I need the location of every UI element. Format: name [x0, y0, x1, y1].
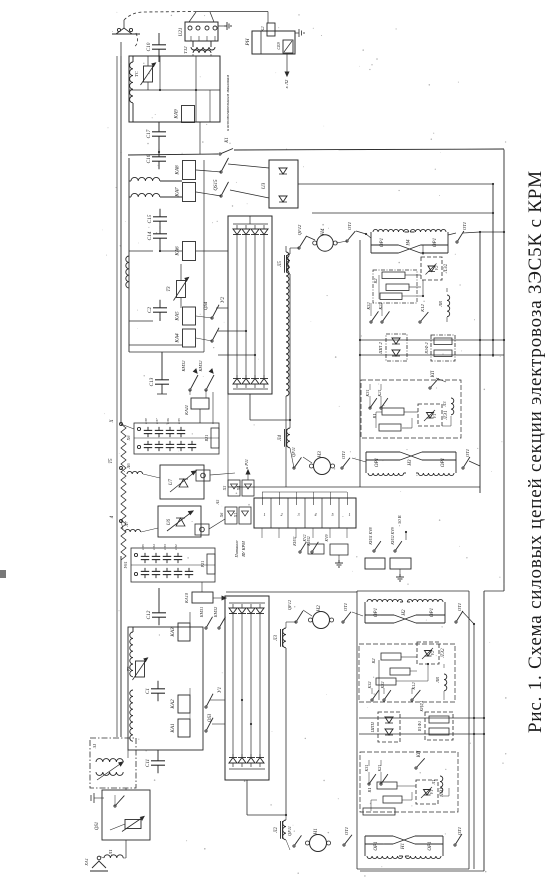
adjustable resistor T2: [136, 661, 145, 677]
svg-text:Н3: Н3: [408, 459, 413, 467]
resistor R21 vertical: [211, 428, 219, 448]
wire ShP row lower 2: [359, 733, 484, 735]
U2 output stub: [249, 394, 251, 420]
resistor R1b lower: [383, 796, 402, 803]
feeder line down to L2: [285, 648, 287, 815]
contact KM31: [189, 389, 191, 391]
svg-text:КН32 КV9: КН32 КV9: [391, 527, 395, 545]
svg-text:КА7: КА7: [175, 187, 181, 198]
resistor in QS1: [125, 820, 141, 829]
contact KM31 lower: [205, 627, 207, 629]
svg-text:С10: С10: [146, 42, 152, 51]
svg-text:КП: КП: [417, 750, 422, 758]
svg-text:К32: К32: [367, 682, 372, 690]
winding a-x top secondary: [131, 177, 160, 181]
svg-text:R2: R2: [371, 658, 376, 665]
svg-text:Н4: Н4: [320, 228, 326, 236]
breaker QF11 upper-B: [293, 467, 295, 469]
wire ShP row lower 1: [359, 717, 484, 719]
unit LE2 lower with V2: [417, 642, 439, 664]
resistor R1a: [382, 408, 404, 415]
disconnector QS1 box: [102, 790, 150, 840]
unit LE2 with V2: [421, 257, 442, 280]
contact KM32 lower: [218, 627, 220, 629]
resistor R1b: [379, 424, 401, 431]
RN right ground: [295, 32, 299, 34]
svg-text:R21: R21: [204, 435, 209, 443]
RC snubber block 2: [131, 548, 215, 582]
svg-text:Л1: Л1: [108, 849, 113, 855]
contact K21 B: [380, 407, 382, 409]
svg-text:Н1: Н1: [313, 828, 319, 836]
contact KV8: [373, 550, 375, 552]
svg-text:Н3: Н3: [317, 451, 323, 459]
svg-text:С38: С38: [144, 418, 148, 424]
block ShP2 upper: [386, 334, 407, 361]
svg-text:U21: U21: [178, 27, 184, 36]
svg-text:ЛЭ2: ЛЭ2: [441, 648, 446, 659]
capacitor C2: [159, 300, 161, 308]
feed inductor L5 (vertical): [287, 254, 290, 274]
svg-text:Хб: Хб: [126, 435, 131, 442]
contact KP upper: [429, 387, 431, 389]
unit LE1 lower with V1: [416, 780, 438, 804]
edge mark: [0, 570, 6, 578]
svg-text:КМ32: КМ32: [181, 360, 186, 373]
terminal strip A5: [254, 498, 356, 528]
rectifier U3 box: [269, 160, 298, 208]
svg-text:ТС: ТС: [134, 70, 139, 77]
coil LV lower: [444, 674, 447, 691]
winding secondary 2: [126, 256, 129, 288]
contact K12 upper: [419, 321, 421, 323]
svg-text:U7: U7: [169, 478, 174, 485]
svg-text:КV2: КV2: [302, 534, 307, 542]
module B control wiring: [369, 396, 371, 408]
contact KP lower: [415, 767, 417, 769]
wire left drop from pantograph: [120, 42, 122, 56]
contact OT1 right N2: [455, 621, 457, 623]
svg-text:КМ32: КМ32: [198, 360, 203, 373]
svg-text:КН31 КV8: КН31 КV8: [369, 527, 373, 545]
svg-text:ОР1: ОР1: [441, 458, 446, 467]
svg-text:ОР1: ОР1: [430, 608, 435, 617]
svg-text:Х4: Х4: [236, 486, 241, 491]
upper block top border: [312, 212, 493, 214]
svg-text:С13: С13: [149, 377, 155, 386]
U1 top thyristor row: [229, 608, 237, 614]
rail: main top bus to right edge: [128, 154, 218, 155]
ground right mid: [399, 569, 401, 574]
switch QS15 (double): [220, 171, 222, 173]
relay panel RN box: [252, 31, 295, 54]
svg-text:КА11: КА11: [184, 405, 189, 416]
lower control box A wiring: [378, 660, 380, 700]
tap X: [120, 423, 123, 426]
svg-text:QS3: QS3: [208, 713, 213, 722]
svg-text:Т3: Т3: [167, 286, 172, 292]
contact KN31 mid: [299, 551, 301, 553]
svg-text:R2: R2: [373, 278, 378, 285]
svg-text:QF12: QF12: [297, 224, 302, 235]
resistor KN32 rect: [390, 558, 411, 569]
svg-text:Питание: Питание: [234, 540, 239, 558]
bus above U1: [226, 591, 357, 593]
resistor R31 vertical: [207, 554, 215, 574]
relay KA10 horizontal: [192, 592, 213, 603]
U2 top thyristor row: [233, 229, 241, 235]
breaker QF11 lower: [293, 845, 295, 847]
pantograph XA1: [92, 861, 106, 868]
rail: right vertical bus x=504: [503, 150, 505, 592]
svg-text:С33: С33: [163, 544, 167, 550]
svg-text:ОТ1: ОТ1: [343, 603, 348, 611]
switch QS4 (double): [211, 317, 213, 319]
motor N2: [313, 612, 330, 629]
svg-text:3: 3: [297, 512, 299, 517]
svg-text:U3: U3: [261, 182, 267, 189]
svg-text:С35: С35: [141, 544, 145, 550]
svg-text:С15: С15: [147, 214, 153, 223]
svg-text:Л5: Л5: [278, 260, 283, 267]
relay KV9 box: [330, 544, 348, 555]
svg-text:КА4: КА4: [174, 333, 181, 344]
U11 inner mid rail: [129, 89, 220, 91]
wire down to label к Л2: [286, 54, 288, 76]
bottom rail: [360, 870, 484, 872]
upper transformer box: [128, 230, 130, 352]
block R1F2 upper (two resistors): [431, 335, 455, 361]
excitation unit U6 box: [158, 506, 201, 537]
svg-text:С35: С35: [177, 418, 181, 424]
feed inductor L2: [285, 815, 287, 820]
upper block bottom rail: [228, 486, 480, 488]
svg-text:ОТ1: ОТ1: [347, 222, 352, 230]
svg-text:Т2: Т2: [126, 666, 131, 672]
capacitor C10: [158, 37, 160, 45]
svg-text:ВУ КРМ: ВУ КРМ: [241, 541, 246, 557]
svg-text:К12: К12: [420, 303, 425, 312]
surge arrester box Z1 (dash-dot): [90, 738, 136, 788]
wire U3 output to right bus: [298, 183, 493, 185]
ground mid: [338, 555, 340, 560]
contact K31 lower-B: [368, 783, 370, 785]
left rail with primary winding: [120, 152, 122, 424]
svg-text:Л2: Л2: [274, 826, 279, 833]
switch K1 on bus: [219, 153, 221, 155]
contact K12 lower: [411, 699, 413, 701]
resistor R2a lower: [381, 653, 401, 660]
wire RC2 to KA10: [201, 582, 203, 592]
primary winding zigzag: [121, 424, 126, 560]
svg-text:КА5: КА5: [175, 311, 181, 322]
svg-text:Х3: Х3: [222, 486, 227, 491]
tap 4: [120, 520, 123, 523]
svg-text:ЛВ: ЛВ: [435, 677, 440, 684]
wire SHP row upper 2: [360, 354, 504, 356]
svg-text:С14: С14: [146, 231, 153, 240]
capacitor C14: [159, 226, 161, 234]
resistor KN31 rect: [365, 558, 385, 569]
dashed roof wire: [124, 12, 196, 21]
tap T5: [120, 467, 123, 470]
unit LE1 with V1: [418, 404, 442, 426]
contact K32 upper: [370, 321, 372, 323]
relay KA6: [183, 242, 196, 261]
coil L7: [125, 529, 141, 532]
adjustable resistor T3: [177, 281, 186, 298]
svg-text:ОР1: ОР1: [374, 841, 379, 850]
pantograph roof symbol top-left: [116, 28, 132, 34]
svg-text:Н2: Н2: [402, 609, 407, 617]
svg-text:К31: К31: [364, 765, 369, 773]
contact OT1 left of N3: [341, 467, 343, 469]
svg-text:ОР1: ОР1: [375, 458, 380, 467]
contact OT1 after N2: [342, 621, 344, 623]
contact K22 lower: [383, 699, 385, 701]
svg-text:К1: К1: [225, 137, 230, 144]
svg-text:к вспомогательным машинам: к вспомогательным машинам: [225, 75, 230, 131]
capacitor C1: [157, 681, 159, 689]
resistor R2b lower: [390, 668, 410, 675]
resistor R2a: [382, 272, 405, 279]
reactor coil left upper block: [286, 252, 289, 396]
block R1F1 lower: [425, 712, 453, 740]
wires KA to U1: [189, 688, 191, 695]
svg-text:К32: К32: [366, 302, 371, 311]
svg-text:ОР1: ОР1: [428, 841, 433, 850]
connector X6 X1 blocks: [225, 507, 237, 524]
svg-text:Л4: Л4: [278, 434, 283, 441]
resistor R1c lower: [363, 808, 395, 815]
svg-text:QF11: QF11: [287, 826, 292, 836]
VIP U1 box: [225, 596, 269, 780]
field winding block OP1-N4-OP1: [370, 232, 372, 253]
svg-text:КН31: КН31: [292, 536, 297, 547]
svg-text:С17: С17: [146, 129, 152, 138]
coil L1 lower-B: [440, 776, 443, 793]
motor N3: [314, 458, 331, 475]
contact K31 B: [369, 407, 371, 409]
relay KA11 rect: [191, 398, 209, 409]
svg-text:Л1: Л1: [431, 780, 436, 786]
svg-text:к Л2: к Л2: [284, 79, 289, 88]
svg-text:Х1: Х1: [233, 513, 238, 518]
svg-text:V2: V2: [434, 265, 439, 271]
svg-text:КА9: КА9: [174, 109, 180, 120]
svg-text:Рис. 1. Схема силовых цепей се: Рис. 1. Схема силовых цепей секции элект…: [525, 170, 546, 733]
wire QS1 to Z1: [125, 788, 127, 790]
svg-text:ХА1: ХА1: [84, 858, 89, 867]
adjustable resistor TV1 in U11: [144, 66, 153, 82]
rail: lower right vertical x=474: [473, 624, 475, 869]
feed inductor L3 lower block: [283, 628, 286, 648]
svg-text:U6: U6: [167, 518, 172, 525]
field winding block OP1-N3-OP1 (mirrored): [365, 452, 367, 473]
svg-text:Л3: Л3: [442, 402, 447, 408]
svg-text:ЛЭ1: ЛЭ1: [444, 410, 449, 420]
svg-text:ОР1: ОР1: [374, 608, 379, 617]
svg-text:R1Ф 2: R1Ф 2: [424, 342, 429, 354]
svg-text:QS1: QS1: [95, 822, 100, 830]
U1 column wires: [232, 617, 234, 757]
wires under strip: [261, 528, 263, 538]
resistor R2c: [380, 293, 402, 300]
svg-text:Уб1: Уб1: [123, 561, 128, 568]
svg-text:1: 1: [263, 512, 265, 517]
rail: right vertical bus x=493: [492, 184, 494, 357]
relay KA5: [183, 307, 196, 325]
svg-text:КА2: КА2: [170, 699, 176, 710]
relay KA1: [178, 719, 190, 737]
svg-text:ОТ1: ОТ1: [344, 827, 349, 835]
wire KM down to RC: [212, 392, 214, 424]
U11 inner vertical right: [209, 90, 211, 122]
svg-text:ШП1: ШП1: [370, 722, 375, 733]
feeder line down to L4: [289, 274, 291, 420]
contact OT1 right N1: [454, 844, 456, 846]
svg-text:С34: С34: [152, 544, 156, 550]
svg-text:ОТ1: ОТ1: [465, 449, 470, 457]
wires to VIP U2: [196, 316, 212, 318]
top-left unit U11 box: [129, 56, 220, 122]
relay KA7: [183, 183, 196, 202]
svg-text:Р21: Р21: [200, 561, 205, 569]
svg-text:С12: С12: [146, 610, 152, 619]
svg-text:СБ9: СБ9: [276, 41, 281, 49]
svg-text:С11: С11: [145, 758, 151, 767]
VIP U2 box: [228, 216, 272, 394]
svg-text:5: 5: [331, 512, 333, 517]
svg-text:С36: С36: [166, 418, 170, 424]
capacitor C15: [159, 209, 161, 217]
switch QS3 (double): [205, 706, 207, 708]
capacitor C16 on bus: [158, 149, 160, 157]
svg-text:Н4: Н4: [407, 239, 412, 247]
block ShP1 lower: [378, 712, 400, 742]
svg-text:4: 4: [314, 512, 316, 517]
svg-text:С1: С1: [145, 688, 151, 694]
svg-text:ОТ1: ОТ1: [462, 222, 467, 230]
svg-text:КА3: КА3: [170, 627, 176, 638]
coil L1 input: [104, 855, 123, 858]
svg-text:к Р11: к Р11: [244, 459, 249, 469]
svg-text:КА8: КА8: [175, 165, 181, 176]
svg-text:Т5: Т5: [109, 458, 114, 464]
capacitor C17 under U11: [158, 124, 160, 132]
lower block outer box: [356, 591, 358, 869]
upper control box wiring: [422, 245, 424, 255]
lower module B dashed box: [360, 752, 458, 812]
relay KA4: [183, 329, 196, 347]
capacitor C12: [158, 605, 160, 613]
resistor R2c lower: [376, 678, 396, 685]
field winding block OP1-N1-OP1: [364, 836, 366, 856]
coil L3 in B box: [451, 398, 454, 415]
svg-text:- 50 В: - 50 В: [397, 515, 402, 526]
svg-text:З1: З1: [92, 744, 97, 749]
scan speckle: [102, 12, 506, 877]
+50V node: [405, 531, 407, 533]
svg-text:ЛЭ2: ЛЭ2: [444, 263, 449, 274]
connector X3 X4 blocks: [228, 480, 240, 496]
svg-text:У1: У1: [217, 687, 223, 694]
svg-text:Л7: Л7: [124, 521, 129, 528]
svg-text:У2: У2: [220, 297, 226, 304]
relay KA9: [182, 106, 195, 123]
contact K22 upper: [381, 321, 383, 323]
svg-text:КМ31: КМ31: [199, 607, 204, 618]
wire SHP row upper 1: [360, 339, 504, 341]
contact OT1 after N4: [346, 240, 348, 242]
upper module B control dashed box: [361, 380, 461, 438]
upper block left edge wire: [359, 240, 361, 487]
U11 left winding: [130, 62, 133, 103]
coil LV in control box: [447, 295, 450, 317]
block SB9 in RN: [283, 40, 293, 53]
svg-text:КП: КП: [431, 370, 436, 378]
contact OT1 right of block B: [462, 467, 464, 469]
transformer TV2 winding under U21: [191, 47, 215, 50]
ground at U21 right: [218, 25, 224, 27]
svg-text:КА10: КА10: [184, 592, 189, 604]
relay KA3: [178, 623, 190, 641]
svg-text:V2: V2: [430, 650, 435, 656]
roof wire solid segment: [196, 11, 268, 13]
contact K32 lower: [371, 699, 373, 701]
svg-text:ОТ1: ОТ1: [457, 827, 462, 835]
relay KA2: [178, 695, 190, 713]
U6 output contact: [195, 524, 209, 535]
svg-text:К2: К2: [260, 26, 265, 33]
RC snubber block 1: [134, 423, 219, 454]
upper control dashed box: [373, 270, 417, 303]
contact OT1 right upper: [448, 233, 456, 235]
svg-text:С2: С2: [147, 307, 153, 313]
resistor R2b: [386, 284, 409, 291]
lower control box B wiring: [368, 772, 370, 784]
svg-text:QF12: QF12: [287, 599, 292, 610]
svg-text:Н1: Н1: [401, 843, 406, 850]
box edge right upper block: [479, 232, 481, 493]
svg-text:V1: V1: [429, 790, 434, 795]
contact K21 lower-B: [380, 783, 382, 785]
U2 column wires: [236, 238, 238, 378]
lower secondary winding: [130, 632, 133, 677]
svg-text:КV9: КV9: [324, 534, 329, 542]
capacitor C13: [161, 372, 163, 380]
contact KV9b: [394, 550, 396, 552]
contact KM32: [205, 389, 207, 391]
excitation unit U7 box: [160, 465, 204, 499]
svg-text:КНД 1: КНД 1: [419, 700, 424, 712]
svg-text:Т12: Т12: [183, 46, 188, 54]
svg-text:QS4: QS4: [204, 301, 209, 310]
contact KN32 mid: [311, 551, 313, 553]
breaker QF12 upper: [290, 247, 299, 249]
svg-text:QS15: QS15: [214, 179, 219, 191]
lower transformer box: [128, 627, 203, 750]
field winding block OP1-N2-OP1: [364, 602, 366, 623]
U1 output stub down: [246, 780, 248, 815]
capacitor C11: [157, 753, 159, 761]
relay KV2 box: [308, 544, 324, 554]
svg-text:Л3: Л3: [274, 634, 279, 641]
svg-text:ОТ1: ОТ1: [341, 451, 346, 459]
resistor R1a lower: [377, 782, 397, 789]
svg-text:Н2: Н2: [316, 605, 322, 613]
wires U21 to roof line: [189, 12, 196, 22]
